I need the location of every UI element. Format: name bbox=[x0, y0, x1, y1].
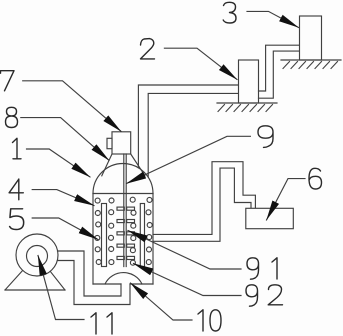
box 2 (condenser) bbox=[239, 60, 259, 103]
pipe vessel to box 6 bbox=[153, 162, 255, 235]
bubbles bbox=[95, 197, 152, 265]
pipe pump to vessel bottom bbox=[58, 251, 122, 296]
ground under box 2 bbox=[217, 102, 277, 104]
label 5 bbox=[10, 209, 24, 230]
leader 91 bbox=[128, 231, 241, 270]
bottom deflector dome 10 bbox=[105, 273, 142, 284]
label 92 bbox=[246, 285, 283, 306]
leader 92 bbox=[134, 264, 242, 296]
motor box 7 bbox=[112, 132, 131, 154]
leader 1 bbox=[27, 149, 91, 177]
label 11 bbox=[91, 313, 112, 334]
ground under box 3 bbox=[281, 59, 341, 61]
motor tab 8 bbox=[107, 138, 112, 148]
leader 4 bbox=[32, 190, 94, 206]
leader 11 bbox=[38, 256, 84, 320]
label 6 bbox=[309, 168, 322, 189]
label 8 bbox=[6, 107, 18, 127]
vessel body (reactor tank 1) bbox=[93, 154, 153, 284]
leader 6 bbox=[267, 179, 306, 220]
vessel dome bbox=[93, 164, 153, 194]
leader 7 bbox=[23, 81, 121, 132]
box 3 bbox=[300, 16, 322, 60]
pipe vessel top to box 2 bbox=[138, 85, 238, 168]
paddles 91 bbox=[117, 207, 135, 259]
left heater bar bbox=[102, 204, 107, 267]
vessel neck slants bbox=[102, 154, 145, 176]
leader 2 bbox=[164, 48, 237, 79]
stirrer shaft 9 bbox=[124, 154, 126, 267]
label 3 bbox=[223, 2, 236, 23]
leader 10 bbox=[131, 283, 193, 320]
label 4 bbox=[9, 179, 23, 200]
leader 3 bbox=[247, 11, 299, 27]
leader 8 bbox=[21, 118, 109, 161]
label 7 bbox=[1, 71, 15, 91]
leader 5 bbox=[32, 218, 98, 240]
label 1 bbox=[13, 138, 22, 159]
pipe box 2 to box 3 bbox=[259, 45, 300, 91]
label 91 bbox=[247, 258, 277, 279]
label 2 bbox=[141, 39, 155, 59]
label 9 bbox=[258, 126, 273, 148]
box 6 bbox=[246, 208, 293, 228]
right heater bar bbox=[140, 204, 144, 267]
leader 9 bbox=[127, 136, 251, 183]
pump 11 bbox=[5, 234, 65, 290]
label 10 bbox=[198, 310, 221, 331]
